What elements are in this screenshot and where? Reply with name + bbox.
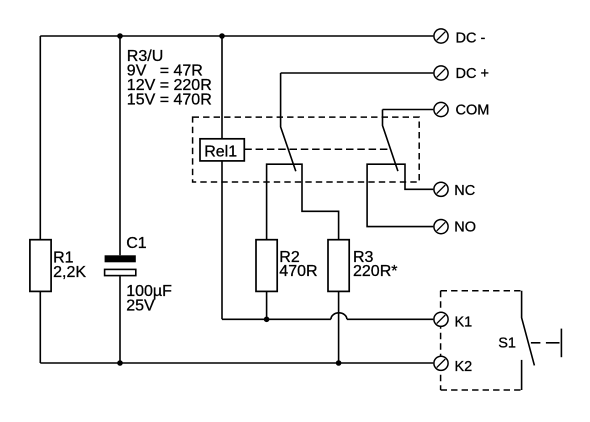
svg-text:Rel1: Rel1 <box>204 143 237 160</box>
svg-text:2,2K: 2,2K <box>53 264 86 281</box>
svg-text:DC +: DC + <box>456 66 489 82</box>
svg-text:K2: K2 <box>455 359 473 375</box>
svg-text:S1: S1 <box>498 336 516 352</box>
svg-text:DC -: DC - <box>456 30 486 46</box>
svg-text:25V: 25V <box>126 298 155 315</box>
svg-text:COM: COM <box>456 103 490 119</box>
svg-text:K1: K1 <box>455 315 473 331</box>
svg-text:15V = 470R: 15V = 470R <box>127 92 212 109</box>
svg-text:NC: NC <box>454 183 475 199</box>
svg-text:220R*: 220R* <box>353 263 397 280</box>
svg-text:C1: C1 <box>126 235 147 252</box>
svg-text:NO: NO <box>454 219 476 235</box>
svg-text:470R: 470R <box>279 263 317 280</box>
